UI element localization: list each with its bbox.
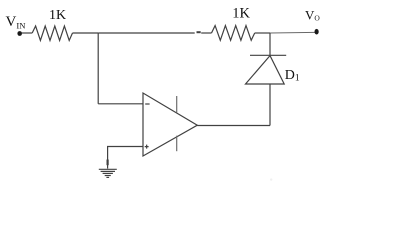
wire R2 to node B [255, 32, 270, 34]
wire dash segment before R2 [197, 31, 201, 33]
op-amp bottom power pin tick [176, 136, 178, 152]
diode D1 triangle [246, 56, 285, 84]
wire to op-amp output [197, 125, 270, 127]
wire node B down to diode cathode [269, 33, 271, 55]
op-amp top power pin tick [176, 96, 178, 113]
ground bar 4 [105, 175, 111, 177]
ground bar 1 [99, 168, 117, 170]
resistor R2 [212, 26, 255, 41]
svg-text:VO: VO [305, 7, 320, 22]
wire R1 to node A [73, 32, 99, 34]
wire feedback to inverting input [98, 103, 143, 105]
svg-text:VIN: VIN [6, 14, 27, 30]
wire VIN terminal to R1 [22, 32, 33, 34]
node VO output terminal [315, 29, 319, 35]
wire node B to VO terminal [270, 31, 315, 34]
node VIN input terminal [17, 31, 22, 36]
wire feedback node A down [97, 33, 99, 104]
svg-text:1K: 1K [49, 8, 66, 23]
wire node A to break [98, 32, 195, 34]
svg-text:D1: D1 [285, 68, 300, 84]
resistor R1 [32, 26, 72, 41]
ground bar 5 [106, 176, 109, 178]
ground bar 2 [101, 170, 115, 172]
op-amp inverting input minus sign [145, 103, 149, 105]
wire thick segment above ground [106, 160, 108, 166]
wire dash to R2 [201, 32, 211, 34]
wire non-inverting input to ground [108, 147, 143, 169]
wire diode anode down [269, 84, 271, 126]
op-amp non-inverting input plus sign [145, 145, 149, 149]
diode D1 cathode bar [250, 54, 286, 56]
faint spot artifact [270, 178, 272, 180]
ground bar 3 [103, 172, 113, 174]
svg-text:1K: 1K [232, 6, 250, 22]
op-amp U1 triangle [143, 93, 197, 156]
